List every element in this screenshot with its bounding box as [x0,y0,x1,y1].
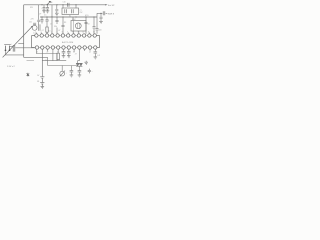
diode D1 D2 [76,63,82,66]
svg-text:24: 24 [36,51,38,53]
capacitor C20 + ground [70,69,74,75]
node arrow B+ [47,1,50,5]
capacitor C7 below bus [41,17,44,24]
svg-text:47: 47 [58,30,60,32]
resistor R2 [57,53,60,59]
svg-text:+: + [11,44,13,46]
svg-text:20: 20 [57,51,59,53]
svg-text:+VR: +VR [30,19,34,21]
svg-text:3: 3 [46,31,47,33]
svg-text:4: 4 [51,31,52,33]
svg-text:17: 17 [73,51,75,53]
svg-text:12: 12 [93,31,95,33]
wire pin stub [74,49,79,61]
note asterisk [27,73,30,77]
svg-text:1.5V x 2: 1.5V x 2 [7,66,15,68]
svg-text:R3: R3 [64,22,66,24]
ground mid [84,62,88,64]
capacitor C2 to ground [43,5,46,11]
potentiometer VR1 volume [32,25,37,30]
capacitor C13 right [96,13,99,34]
wire bus under IC [36,49,57,61]
svg-text:+: + [48,20,49,22]
IC U1 body [32,36,35,48]
wiper arrow diagonal [3,26,33,57]
wire pot feed [38,5,40,20]
svg-text:100: 100 [99,30,102,32]
node tick left rail [18,43,23,45]
resistor R1 [46,27,48,32]
svg-text:6: 6 [62,31,63,33]
svg-text:25V: 25V [79,12,83,14]
svg-text:4.7: 4.7 [42,30,44,32]
svg-text:3V: 3V [37,75,40,77]
svg-text:47: 47 [75,54,77,56]
svg-text:10: 10 [82,31,84,33]
svg-text:10k: 10k [29,22,32,24]
svg-text:B: B [51,2,53,4]
capacitor C1 series in bus [67,3,69,7]
svg-text:2P: 2P [39,13,42,15]
wire earphone line [97,12,102,14]
svg-text:C10: C10 [63,1,66,3]
svg-text:Ext SP: Ext SP [108,4,115,7]
svg-text:7: 7 [67,31,68,33]
wire stub x52 [51,5,53,17]
box filter block [62,8,79,15]
capacitor C5 in box [65,9,67,13]
capacitor C22 small right [88,69,91,74]
svg-text:14: 14 [89,51,91,53]
svg-text:C5: C5 [50,24,52,26]
capacitor C14 series [103,11,105,15]
svg-text:AN7145M: AN7145M [62,41,73,44]
svg-text:9: 9 [78,31,79,33]
pin number specks bottom [36,51,91,53]
capacitor C17 + ground [62,49,66,55]
capacitor C8 electrolytic [46,17,49,27]
capacitor C4 to ground [55,5,58,13]
svg-text:1 2: 1 2 [33,32,35,34]
svg-text:SW: SW [30,7,33,9]
IC pins bottom row [35,46,97,49]
svg-text:B1: B1 [37,81,39,83]
input jack J1 [6,46,10,50]
transformer T1 box [71,21,86,32]
wire left rail [23,5,25,58]
capacitor C3 to ground [46,5,49,11]
capacitor C19 + ground right [94,49,98,56]
pin number specks top [35,31,95,33]
trimmer RT1 [60,71,65,76]
svg-text:+: + [41,8,42,10]
svg-text:0.5: 0.5 [44,14,46,16]
svg-text:5: 5 [56,31,57,33]
wire input ground return [6,51,24,55]
battery B1 [40,49,44,86]
svg-text:+: + [92,71,93,73]
wire short stubs above top pins [36,32,89,34]
wire input to IC [15,47,35,49]
capacitor C16 input electrolytic [13,45,15,51]
capacitor C21 + ground [78,69,82,75]
junction dots mid bus [41,4,94,17]
svg-text:10: 10 [88,24,90,26]
svg-text:470: 470 [85,15,89,17]
svg-text:22: 22 [47,51,49,53]
wire mid bus [40,16,97,18]
capacitor C15 to ground [100,13,103,21]
capacitor C18 + ground [67,49,71,55]
wire stub pin3 [51,17,53,34]
svg-text:10: 10 [48,31,50,33]
capacitor C11 [85,17,88,34]
capacitor C12 [93,17,96,34]
capacitor C6 in box [72,9,74,13]
svg-text:33k: 33k [54,26,57,28]
svg-text:0.5: 0.5 [97,55,100,57]
IC pins top row [35,34,97,37]
svg-text:+: + [66,72,67,74]
capacitor C10 [62,17,65,34]
capacitor C9 [56,17,59,24]
svg-text:EAR 8: EAR 8 [108,12,115,15]
wire top supply bus [24,4,106,6]
label to earphone top right [105,4,107,5]
wire nested [48,49,78,65]
svg-text:38: 38 [45,60,47,62]
svg-text:8: 8 [72,31,73,33]
